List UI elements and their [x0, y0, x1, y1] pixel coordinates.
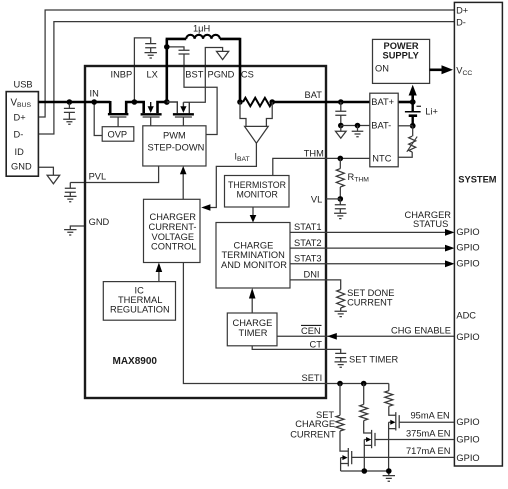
svg-text:BST: BST [185, 70, 203, 80]
transistor Q1 gate line and stem to OVP [110, 117, 127, 127]
wire 95mA EN gate [399, 421, 454, 423]
svg-text:CONTROL: CONTROL [151, 242, 196, 252]
node SETI branch 2 [361, 381, 367, 387]
wire INBP to bypass cap [134, 38, 150, 102]
ground at INBP cap [145, 53, 157, 58]
svg-text:D+: D+ [14, 112, 26, 122]
battery connector box BAT+/BAT-/NTC [370, 93, 398, 167]
node BAT+ at cell [410, 99, 416, 105]
svg-text:CURRENT: CURRENT [347, 298, 393, 308]
resistor branch 2 [363, 384, 365, 405]
resistor branch 3 [385, 391, 393, 407]
svg-text:CHARGER: CHARGER [150, 212, 197, 222]
wire inductor left lead [166, 38, 187, 41]
wire D- from USB to SYSTEM [38, 22, 454, 134]
svg-text:AND MONITOR: AND MONITOR [221, 260, 287, 270]
wire CEN / CHG ENABLE [277, 335, 454, 337]
svg-text:REGULATION: REGULATION [110, 305, 170, 315]
wire D+ from USB to SYSTEM [38, 10, 454, 117]
wire DNI to set-done resistor [290, 280, 341, 290]
transistor Q2 arrow [150, 102, 152, 107]
svg-text:ON: ON [375, 64, 389, 74]
svg-text:GND: GND [89, 217, 110, 227]
svg-text:DNI: DNI [304, 270, 320, 280]
svg-text:GPIO: GPIO [456, 417, 479, 427]
capacitor VL bypass [335, 199, 346, 213]
wire common source ground rail [341, 470, 389, 472]
resistor current sense CS-BAT [243, 98, 272, 106]
wire PGND inside to Q3 drain [183, 66, 205, 102]
CHARGE TERMINATION AND MONITOR box [216, 223, 290, 289]
svg-text:GND: GND [11, 161, 32, 171]
THERMISTOR MONITOR box [225, 176, 290, 208]
svg-text:SYSTEM: SYSTEM [458, 174, 496, 184]
svg-text:SUPPLY: SUPPLY [383, 50, 420, 60]
svg-text:VOLTAGE: VOLTAGE [152, 232, 195, 242]
node IN [91, 99, 97, 105]
svg-text:RTHM: RTHM [348, 172, 370, 184]
ground at VL cap [334, 213, 346, 218]
ground arrow at USB GND [47, 175, 60, 184]
svg-text:THERMAL: THERMAL [118, 295, 162, 305]
svg-text:USB: USB [14, 80, 33, 90]
arrow Q6 source indicator [390, 420, 395, 425]
svg-text:ID: ID [15, 147, 25, 157]
op-amp current sense amplifier [210, 102, 273, 208]
inductor L1 1uH [186, 35, 220, 39]
svg-text:STAT3: STAT3 [294, 254, 322, 264]
node LX on VBUS rail [164, 99, 170, 105]
svg-text:D+: D+ [456, 5, 468, 15]
svg-text:NTC: NTC [372, 153, 391, 163]
svg-text:95mA EN: 95mA EN [411, 411, 450, 421]
ground at input cap [63, 119, 75, 124]
wire 717mA EN gate [352, 456, 455, 458]
arrow charge timer to charge termination [251, 297, 253, 313]
ground arrow below BAT cap [340, 126, 342, 132]
arrow thermal regulation to charger control [158, 271, 160, 282]
wire PGND pin to ground arrow above IC [205, 48, 222, 67]
svg-text:CEN: CEN [301, 326, 321, 336]
svg-text:SET TIMER: SET TIMER [349, 354, 399, 364]
capacitor BAT bypass [335, 102, 346, 126]
wire inductor right lead down to CS [220, 38, 240, 103]
wire THM to thermistor monitor [273, 158, 326, 175]
node BAT right of sense resistor [269, 99, 275, 105]
ground at set timer cap [335, 362, 347, 367]
transistor Q4 717mA switch [340, 431, 352, 471]
svg-text:OVP: OVP [108, 130, 128, 140]
svg-text:MAX8900: MAX8900 [113, 356, 158, 367]
svg-text:SETI: SETI [302, 373, 323, 383]
svg-text:VL: VL [311, 195, 322, 205]
svg-text:GPIO: GPIO [456, 227, 479, 237]
node BAT- second ground [355, 123, 361, 129]
svg-text:ADC: ADC [456, 311, 476, 321]
svg-text:VBUS: VBUS [11, 98, 32, 110]
ground at source rail [383, 471, 395, 481]
svg-text:STAT1: STAT1 [294, 222, 322, 232]
POWER SUPPLY box [373, 39, 430, 83]
svg-text:CHARGE: CHARGE [295, 419, 335, 429]
arrow Q4 source indicator [342, 455, 347, 460]
CHARGE TIMER box [227, 313, 277, 346]
svg-text:PVL: PVL [89, 172, 107, 182]
transistor Q2 gate line and stem to PWM [143, 117, 160, 126]
wire STAT2 [290, 247, 446, 249]
svg-text:STAT2: STAT2 [294, 238, 322, 248]
svg-text:717mA EN: 717mA EN [406, 446, 450, 456]
wire LX to Q3 synchronous FET [167, 102, 190, 113]
ground arrow PGND [217, 51, 229, 59]
transistor Q3 channel bar [173, 113, 194, 115]
transistor Q3 gate line and stem to PWM [175, 117, 192, 126]
resistor set done current [337, 290, 345, 309]
svg-text:LX: LX [147, 70, 158, 80]
svg-text:GPIO: GPIO [456, 243, 479, 253]
USB connector box [6, 92, 38, 177]
transistor Q1 channel bar [108, 113, 128, 115]
node rail branch 2 [362, 468, 368, 474]
wire STAT3 [290, 263, 446, 265]
node SETI branch 1 [337, 381, 343, 387]
svg-text:MONITOR: MONITOR [237, 190, 278, 200]
wire BAT+ battery connector to cell [398, 101, 413, 104]
transistor Q5 375mA switch [364, 421, 375, 471]
svg-text:D-: D- [456, 17, 466, 27]
thermistor NTC in battery pack [412, 126, 414, 136]
transistor Q1 OVP FET stubs [110, 101, 167, 113]
wire LX node to BST capacitor [167, 47, 184, 50]
svg-text:PWM: PWM [163, 131, 186, 141]
wire IN node to OVP [94, 102, 102, 136]
svg-text:TERMINATION: TERMINATION [222, 250, 285, 260]
svg-text:CURRENT-: CURRENT- [149, 222, 197, 232]
wire IBAT to charger control [210, 143, 257, 207]
node battery negative [410, 123, 416, 129]
wire BST pin to PWM driver [184, 66, 217, 135]
wire BAT- to cell [398, 125, 413, 127]
wire GND pin [70, 226, 85, 230]
node CS [237, 99, 243, 105]
ground at PVL cap [64, 196, 76, 201]
ground at set done resistor [335, 308, 347, 317]
svg-text:BAT+: BAT+ [371, 97, 394, 107]
svg-text:THERMISTOR: THERMISTOR [228, 180, 286, 190]
svg-text:STATUS: STATUS [413, 219, 448, 229]
node BAT- ground tie [338, 123, 344, 129]
wire THM row external [326, 157, 370, 159]
wire LX node up to inductor [166, 39, 169, 103]
svg-text:D-: D- [14, 129, 24, 139]
wire STAT1 [290, 231, 446, 233]
svg-text:CURRENT: CURRENT [290, 429, 336, 439]
svg-text:GPIO: GPIO [456, 332, 479, 342]
svg-text:IBAT: IBAT [235, 152, 250, 163]
transistor Q2 high-side FET channel bar [141, 113, 162, 115]
arrow STAT1 into system GPIO [445, 229, 455, 236]
svg-text:CHG ENABLE: CHG ENABLE [391, 325, 451, 335]
IC box MAX8900 [85, 66, 326, 398]
svg-text:CS: CS [241, 70, 254, 80]
IC THERMAL REGULATION box [103, 282, 175, 321]
ground at BAT- [352, 126, 364, 137]
svg-text:GPIO: GPIO [456, 453, 479, 463]
resistor RTHM [339, 158, 341, 168]
node LX bootstrap tap [164, 44, 170, 50]
svg-text:GPIO: GPIO [456, 258, 479, 268]
svg-text:BAT-: BAT- [371, 121, 391, 131]
capacitor set timer [335, 353, 346, 362]
svg-text:INBP: INBP [111, 69, 133, 79]
arrow Q5 source indicator [366, 437, 371, 442]
capacitor PVL bypass [65, 183, 76, 197]
wire SETI from charger control to external network [183, 263, 388, 384]
svg-text:CT: CT [310, 339, 323, 349]
OVP box [102, 127, 134, 142]
svg-text:1μH: 1μH [193, 23, 210, 33]
arrow battery to power supply [411, 94, 414, 102]
capacitor input bypass at VBUS [64, 102, 75, 119]
node input cap on VBUS [67, 99, 73, 105]
arrow charger control to PWM [182, 173, 184, 200]
svg-text:VCC: VCC [456, 65, 472, 77]
wire VL pin [326, 198, 340, 200]
capacitor BST bootstrap [179, 50, 190, 66]
arrow IBAT into charger control [201, 204, 210, 211]
svg-text:375mA EN: 375mA EN [406, 428, 450, 438]
node INBP on VBUS rail [132, 99, 138, 105]
arrow VCC power supply to system [430, 69, 443, 72]
battery cell Li+ [417, 105, 422, 107]
ground at GND pin [64, 230, 76, 235]
arrow CHG ENABLE into CEN [327, 333, 337, 340]
wire BAT from sense resistor to battery connector [272, 101, 370, 104]
node BAT external cap tap [338, 99, 344, 105]
arrow STAT3 into system GPIO [445, 260, 455, 267]
wire BAT- row to grounds [341, 125, 370, 127]
capacitor INBP bypass [145, 44, 156, 53]
resistor set charge current branch 1 [339, 384, 341, 416]
svg-text:TIMER: TIMER [239, 328, 268, 338]
arrow STAT2 into system GPIO [445, 245, 455, 252]
svg-text:STEP-DOWN: STEP-DOWN [148, 143, 205, 153]
svg-text:PGND: PGND [208, 70, 235, 80]
node RTHM tap [338, 156, 344, 162]
svg-text:CHARGE: CHARGE [234, 240, 274, 250]
arrow thermistor monitor to charge termination [252, 207, 254, 216]
svg-text:BAT: BAT [305, 90, 323, 100]
wire PVL to PWM step-down [70, 166, 158, 183]
CHARGER CURRENT-VOLTAGE CONTROL box [144, 199, 201, 262]
svg-text:GPIO: GPIO [456, 435, 479, 445]
svg-text:Li+: Li+ [425, 107, 438, 117]
svg-text:IN: IN [90, 89, 99, 99]
transistor Q6 95mA switch [389, 384, 400, 472]
node VL tap [338, 196, 344, 202]
svg-text:IC: IC [135, 285, 145, 295]
PWM STEP-DOWN box [143, 126, 206, 166]
SYSTEM box [454, 2, 502, 466]
svg-text:CHARGE: CHARGE [233, 318, 273, 328]
transistor Q3 arrow [180, 106, 186, 113]
wire CT to set-timer cap [252, 346, 341, 354]
svg-text:THM: THM [304, 148, 324, 158]
wire VBUS from USB to IN and Q1 [38, 101, 110, 104]
wire 375mA EN gate [375, 439, 454, 441]
wire USB GND to ground arrow [38, 167, 53, 175]
node rail ground [386, 468, 392, 474]
